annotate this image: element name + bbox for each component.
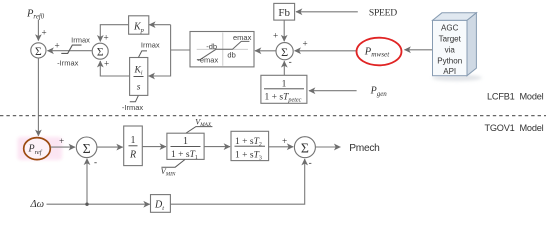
summing junction S1 [31,43,46,58]
svg-text:Σ: Σ [301,141,309,156]
svg-text:Target: Target [439,35,462,44]
svg-text:AGC: AGC [441,24,459,33]
wire Pmwset to S3 [295,39,357,51]
deadband block [190,32,254,67]
svg-text:-Irmax: -Irmax [57,58,78,67]
wire S3 to deadband [255,50,276,52]
svg-text:-emax: -emax [197,56,218,65]
wire speed deviation up into S4 minus [87,157,97,204]
svg-text:1: 1 [183,136,188,147]
svg-text:+: + [59,136,64,146]
node Pmech label [349,143,379,154]
integrator block Ki/s [130,58,148,96]
svg-text:+: + [42,28,47,38]
limiter tick VMAX above T1 [186,118,212,133]
svg-text:+: + [282,136,287,146]
junction dot on delta-omega wire [85,203,88,206]
block 1/(1+sTpetec) [261,75,307,103]
limiter tick VMIN below T1 [161,160,185,178]
node Pref ellipse [24,138,51,160]
node delta-omega label [30,199,45,210]
limiter (saturation) on wire Irmax [57,36,90,68]
node Pref ellipse highlight glow [18,137,63,160]
wire S4 to 1/R [97,146,123,148]
svg-text:emax: emax [233,33,252,42]
gain block Kp [129,16,149,34]
svg-text:db: db [227,51,235,60]
svg-text:+: + [104,59,109,69]
node SPEED label [369,8,397,19]
svg-text:Python: Python [437,57,462,66]
svg-text:Σ: Σ [35,46,42,58]
svg-text:Irmax: Irmax [141,40,160,49]
svg-text:Σ: Σ [97,47,104,59]
dashed separator line [0,115,546,117]
svg-text:R: R [129,150,136,161]
node Pgen label [370,86,388,99]
wire AGC cube to Pmwset [405,49,433,51]
svg-text:-: - [94,157,97,167]
wire 1/R to T1 block [142,146,166,148]
wire SPEED into Fb [296,11,358,13]
svg-text:API: API [443,67,456,76]
block Fb [274,3,295,20]
svg-text:Δω: Δω [30,199,45,210]
block (1+sT2)/(1+sT3) [231,131,269,161]
svg-text:TGOV1 Model: TGOV1 Model [484,123,543,133]
wire Dt output up into S5 minus [170,158,311,205]
svg-text:Σ: Σ [83,141,91,156]
wire Pgen into Tpetec block [309,90,357,92]
wire T2T3 to S5 [269,136,294,147]
wire S5 to Pmech [316,146,341,148]
wire deadband output tee to Kp and Ki [149,25,190,76]
label LCFB1 Model [487,91,544,101]
wire T1 to T2T3 block [204,146,230,148]
block Dt [151,195,171,213]
svg-text:+: + [273,31,278,41]
svg-text:Fb: Fb [278,7,290,19]
label TGOV1 Model [484,123,543,133]
svg-text:Pmech: Pmech [349,143,379,154]
wire delta-omega to Dt [47,203,150,205]
svg-text:1: 1 [282,80,287,90]
AGC cube shadow [432,75,482,81]
svg-text:Irmax: Irmax [71,36,90,45]
svg-text:+: + [104,33,109,43]
wire Ki output into S2 bottom [100,59,129,77]
svg-text:-: - [309,158,312,168]
wire Pref to S4 [51,136,75,147]
svg-text:Σ: Σ [281,45,288,59]
summing junction S4 [76,137,97,158]
wire Fb down into S3 [273,20,284,41]
svg-text:+: + [55,40,60,50]
svg-text:via: via [445,46,456,55]
wire Tpetec up into S3 minus [284,57,291,76]
summing junction S5 [294,137,315,158]
svg-text:s: s [137,83,141,93]
node Pmwset ellipse [357,38,402,66]
svg-text:-db: -db [206,42,217,51]
wire S2 to S1 with limiter [48,40,92,50]
wire Pref0 to summer S1 [38,20,46,41]
AGC Target via Python API cube [433,13,477,76]
limiter tick -Irmax below Ki/s [122,96,143,112]
svg-text:SPEED: SPEED [369,8,397,19]
summing junction S3 [276,43,293,60]
limiter tick Irmax above Ki/s [139,40,160,57]
svg-text:+: + [303,39,308,49]
wire Kp output into S2 top [100,25,128,43]
svg-text:1: 1 [131,135,136,146]
summing junction S2 [92,43,108,59]
wire S1 down to Pref ellipse [37,58,39,136]
block 1/(1+sT1) [167,133,204,161]
svg-text:1 + sT3: 1 + sT3 [235,151,262,162]
svg-text:-: - [289,57,292,67]
node Pref0 input label [26,8,45,20]
block 1/R [124,126,143,166]
svg-text:-Irmax: -Irmax [122,103,143,112]
